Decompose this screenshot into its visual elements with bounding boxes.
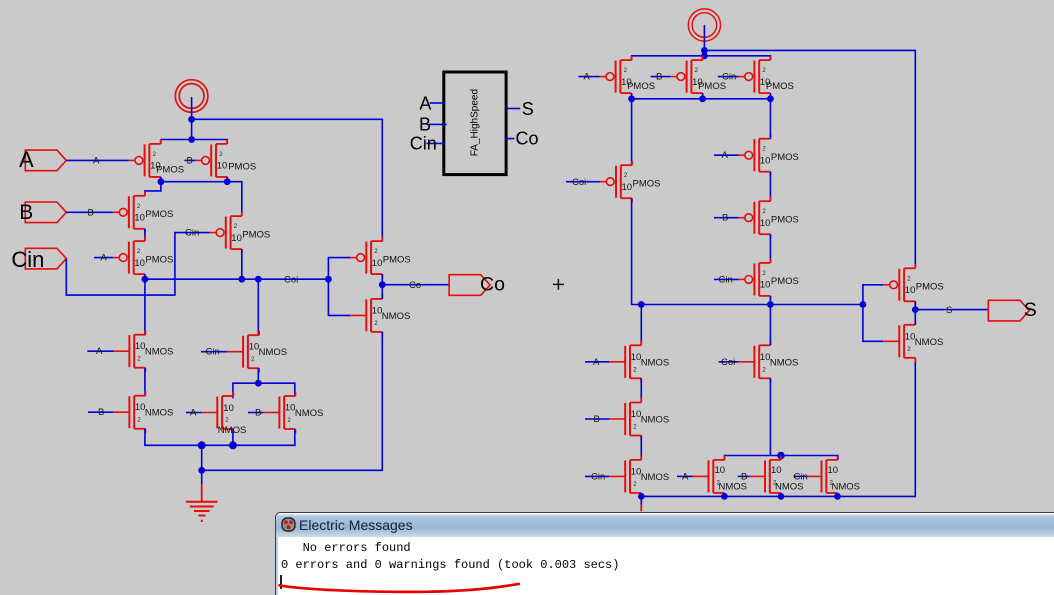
wire ground stub right circuit xyxy=(640,496,642,511)
message text area xyxy=(276,537,1054,595)
node Co junction xyxy=(379,281,386,288)
transistor P15 PMOS S inverter xyxy=(883,264,943,306)
wire VDD rail to S inverter xyxy=(704,50,915,268)
label net A at N4 gate xyxy=(186,408,201,419)
transistor N8 NMOS gate A (left stack) xyxy=(609,341,669,383)
node bottom bus J1 xyxy=(638,493,645,500)
pin S output export xyxy=(988,299,1037,321)
transistor N1 NMOS gate A xyxy=(113,330,173,372)
transistor P1 PMOS gate A (top-left) xyxy=(129,139,184,181)
transistor P11 PMOS gate Coi xyxy=(600,161,660,203)
transistor N14 NMOS gate Cin (trio) xyxy=(806,455,861,497)
pin A input export xyxy=(19,147,66,172)
label net B at P2 gate xyxy=(184,155,195,166)
wire VDD rail to output PMOS xyxy=(192,119,383,241)
node bottom bus J2 xyxy=(721,493,728,500)
wire Co mid node xyxy=(381,274,383,299)
wire Coi tap to P6 gate xyxy=(328,258,350,280)
label net A at P4a gate xyxy=(94,253,113,264)
Electric application icon xyxy=(281,517,296,532)
label net Cin at P10 xyxy=(718,72,739,83)
wire N3 source to pair node xyxy=(257,368,259,383)
pin Co of FA box xyxy=(506,129,538,149)
cell center cursor xyxy=(553,279,564,290)
wire N10 to bottom bus xyxy=(640,493,642,497)
node top bus right xyxy=(767,95,774,102)
label net Cin at N10 xyxy=(585,471,609,482)
label net Co xyxy=(409,280,421,291)
red hand-drawn annotation squiggle xyxy=(280,584,519,592)
wire stack P14 drain to bus xyxy=(769,296,771,305)
label net A at P8 xyxy=(579,72,600,83)
transistor P2 PMOS gate B (top-right) xyxy=(195,139,256,181)
text caret xyxy=(280,575,282,590)
pin B input export xyxy=(19,201,66,224)
wire pair node spread xyxy=(233,383,295,398)
wire VDD stem down xyxy=(191,119,193,139)
wire S to export xyxy=(915,309,988,311)
pin Cin of FA box xyxy=(410,134,445,154)
node VDD rail junction xyxy=(188,136,195,143)
label net A at N8 xyxy=(585,357,609,368)
node top bus mid xyxy=(699,95,706,102)
transistor N2 NMOS gate B xyxy=(113,391,173,433)
window title bar xyxy=(276,513,1054,537)
wire drain bus to P4 source xyxy=(227,182,242,216)
wire Coi bus xyxy=(145,278,329,280)
wire trio bus stub mid xyxy=(780,456,782,460)
wire A to P1 gate xyxy=(66,159,128,161)
node top bus left xyxy=(628,95,635,102)
transistor N11 NMOS gate Coi xyxy=(738,341,798,383)
label net A at N1 gate xyxy=(87,346,113,357)
power symbol VDD (left circuit) xyxy=(175,80,208,120)
transistor N10 NMOS gate Cin (left stack) xyxy=(609,455,669,497)
label net B at N13 xyxy=(738,471,749,482)
node mid bus left xyxy=(638,301,645,308)
pin Cin input export xyxy=(11,247,66,272)
node VDD stem upper xyxy=(701,47,708,54)
wire P11 drain to lower bus xyxy=(632,198,863,304)
wire stack P13-P14 xyxy=(769,234,771,263)
transistor N5 NMOS gate B (parallel pair) xyxy=(263,392,323,434)
label net A xyxy=(93,155,100,166)
node mid bus center xyxy=(767,301,774,308)
transistor P12 PMOS gate A (middle stack) xyxy=(738,134,798,176)
label net Cin at P5 gate xyxy=(185,228,199,239)
transistor N3 NMOS gate Cin xyxy=(227,331,287,373)
wire trio sources to bus xyxy=(724,493,837,497)
wire N6 source to ground return xyxy=(202,332,383,470)
node Coi bus J3 xyxy=(142,276,149,283)
transistor P3 PMOS gate B (middle stack) xyxy=(113,191,173,233)
wire bus to P11 source xyxy=(631,99,633,165)
node bottom bus J4 xyxy=(834,493,841,500)
label net Cin at N14 xyxy=(794,471,808,482)
node Coi bus J6 inverter tap xyxy=(325,276,332,283)
wire Co to export xyxy=(382,284,449,286)
wire stack P12-P13 xyxy=(769,172,771,202)
label net B at N5 gate xyxy=(248,408,263,419)
wire rail stub P9 xyxy=(702,56,704,60)
wire ground drop xyxy=(201,445,203,470)
label net Coi at P11 xyxy=(566,177,600,188)
label net Cin at P14 xyxy=(714,274,738,285)
window title xyxy=(299,517,413,533)
transistor P10 PMOS gate Cin (top row) xyxy=(738,56,793,98)
label net S xyxy=(946,305,952,316)
node VDD junction xyxy=(188,116,195,123)
node mid bus right tap xyxy=(860,301,867,308)
transistor N12 NMOS gate A (trio) xyxy=(693,455,748,497)
pin A of FA box xyxy=(419,93,445,113)
pin Co output export xyxy=(449,274,505,296)
wire stack P12 source xyxy=(769,99,771,139)
transistor P8 PMOS gate A (top row) xyxy=(600,56,655,98)
label net B at N2 gate xyxy=(88,407,113,418)
wire P4a drain to Coi bus xyxy=(144,274,146,279)
node trio bus junction xyxy=(777,452,785,460)
transistor N6 NMOS output inverter (Co) xyxy=(350,294,410,336)
transistor P13 PMOS gate B (middle stack) xyxy=(738,197,798,239)
wire P5 drain to Coi bus xyxy=(241,249,243,279)
wire S mid node xyxy=(914,301,916,325)
wire N9-N10 xyxy=(640,436,642,460)
wire bus to N8 drain xyxy=(640,305,642,346)
wire N11 source to trio bus xyxy=(769,378,771,455)
node ground bus J9 xyxy=(198,441,206,449)
transistor P9 PMOS gate B (top row) xyxy=(671,56,726,98)
wire N1 to N2 series xyxy=(144,368,146,396)
wire bottom bus right circuit xyxy=(641,358,915,497)
wire B to P3 gate xyxy=(66,211,113,213)
transistor P5 PMOS gate Cin xyxy=(210,212,270,254)
label net B at P13 xyxy=(714,213,738,224)
transistor N13 NMOS gate B (trio) xyxy=(749,455,804,497)
wire trio top bus xyxy=(724,456,838,460)
label net B at P9 xyxy=(651,72,671,83)
ground symbol xyxy=(186,484,218,522)
wire P3 to P4a series xyxy=(144,229,146,241)
wire Coi to N1 drain xyxy=(144,279,146,335)
wire P1/P2 drain bus xyxy=(161,177,227,182)
wire VDD rail left to P8 xyxy=(632,56,771,60)
label net B at N9 xyxy=(585,414,609,425)
wire N8-N9 xyxy=(640,378,642,402)
Electric Messages window xyxy=(275,512,1054,595)
transistor P14 PMOS gate Cin (middle stack) xyxy=(738,258,798,300)
power symbol VDD (right circuit) xyxy=(688,9,720,56)
wire N11 drain to mid bus xyxy=(769,305,771,346)
node drain bus right xyxy=(224,178,231,185)
node drain bus left xyxy=(158,178,165,185)
pin B of FA box xyxy=(419,114,447,134)
label net Coi at N11 xyxy=(719,357,739,368)
wire bottom ground bus xyxy=(145,429,295,446)
node pair junction J8 xyxy=(255,380,262,387)
node bottom bus J3 xyxy=(778,493,785,500)
node VDD stem lower xyxy=(701,52,708,59)
transistor N15 NMOS S inverter xyxy=(883,320,943,362)
wire Coi tap to N6 gate xyxy=(328,279,350,315)
pin S of FA box xyxy=(505,99,533,119)
label net Coi xyxy=(284,274,298,285)
label net A at P12 xyxy=(714,150,738,161)
wire N4 source to bus xyxy=(232,429,234,445)
FA_HighSpeed cell box xyxy=(444,72,506,175)
label net Cin at N3 gate xyxy=(201,347,227,358)
transistor P6 PMOS output inverter (Co) xyxy=(350,237,410,279)
wire drain bus to P3 source xyxy=(145,182,161,196)
wire Coi to N3 drain xyxy=(257,279,259,335)
wire Cin feed down-right-up xyxy=(66,233,210,296)
wire top drain bus xyxy=(632,93,771,99)
node S junction xyxy=(912,306,919,313)
wire gate tap to S inverter xyxy=(863,285,883,342)
node ground junction J11 xyxy=(198,467,205,474)
wire VDD rail over P1/P2 xyxy=(161,140,227,144)
transistor N4 NMOS gate A (parallel pair) xyxy=(201,392,246,437)
wire drain bus stub P9 xyxy=(702,93,704,99)
transistor P4a PMOS gate A (middle stack lower) xyxy=(113,237,173,279)
node Coi bus J5 xyxy=(255,276,262,283)
node Coi bus J4 xyxy=(238,276,245,283)
node ground bus J10 xyxy=(229,441,237,449)
transistor N9 NMOS gate B (left stack) xyxy=(609,398,669,440)
label net B xyxy=(88,207,94,218)
wire ground stem xyxy=(201,470,203,484)
label net A at N12 xyxy=(677,471,693,482)
